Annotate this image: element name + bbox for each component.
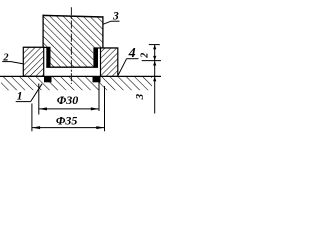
part 3 top edge	[43, 15, 104, 17]
label 2 underline	[2, 61, 11, 63]
dimension phi30 line	[39, 108, 99, 110]
svg-text:2: 2	[140, 53, 151, 59]
label 2 leader	[11, 62, 23, 64]
label 3 underline	[111, 20, 120, 22]
arrowhead dim 2 top	[153, 45, 156, 50]
dimension phi35 left extension line	[31, 104, 33, 132]
part 3 right edge	[102, 16, 104, 48]
part 2 right ring	[101, 48, 118, 76]
label 1 underline	[16, 101, 31, 103]
plate P1 top surface line	[0, 75, 161, 77]
svg-text:1: 1	[17, 91, 23, 103]
dimension phi35 right arrow	[96, 126, 104, 129]
part 3 stud body (T shape, hatched)	[43, 15, 103, 67]
dimension phi35 line	[32, 127, 105, 129]
dimension phi35 left arrow	[32, 126, 40, 129]
solder bar left	[46, 47, 50, 67]
label 1 leader	[31, 84, 42, 102]
part 3 left edge	[42, 15, 44, 48]
arrowhead dim 2 bottom	[153, 56, 156, 61]
solder block left	[44, 76, 52, 82]
dimension phi30 left arrow	[39, 107, 47, 110]
part 3 shank bottom line	[46, 66, 98, 68]
svg-text:3: 3	[134, 93, 146, 100]
arrowhead dim 3 top	[153, 61, 156, 66]
label 3 leader	[103, 21, 111, 24]
plate P1 hatching band	[1, 77, 152, 90]
right vertical dim line	[154, 45, 156, 114]
centerline	[70, 7, 72, 84]
solder block right	[93, 76, 101, 82]
dimension phi35 right extension line	[104, 86, 106, 131]
arrowhead dim 3 bottom	[153, 77, 156, 82]
dimension phi30 left extension line	[38, 84, 40, 115]
label 4 underline	[127, 58, 139, 60]
joint line left (rect2 top / head underside)	[23, 46, 50, 48]
dimension phi30 right arrow	[91, 107, 99, 110]
part 2 left ring	[23, 47, 43, 76]
label 4 leader	[118, 59, 127, 76]
solder bar right	[93, 48, 98, 68]
right dim extension mid	[142, 60, 161, 62]
right dim extension top	[149, 44, 160, 46]
dimension phi30 right extension line	[98, 82, 100, 111]
joint line right	[93, 47, 118, 49]
svg-text:Φ35: Φ35	[56, 113, 77, 127]
svg-text:Φ30: Φ30	[57, 93, 78, 107]
